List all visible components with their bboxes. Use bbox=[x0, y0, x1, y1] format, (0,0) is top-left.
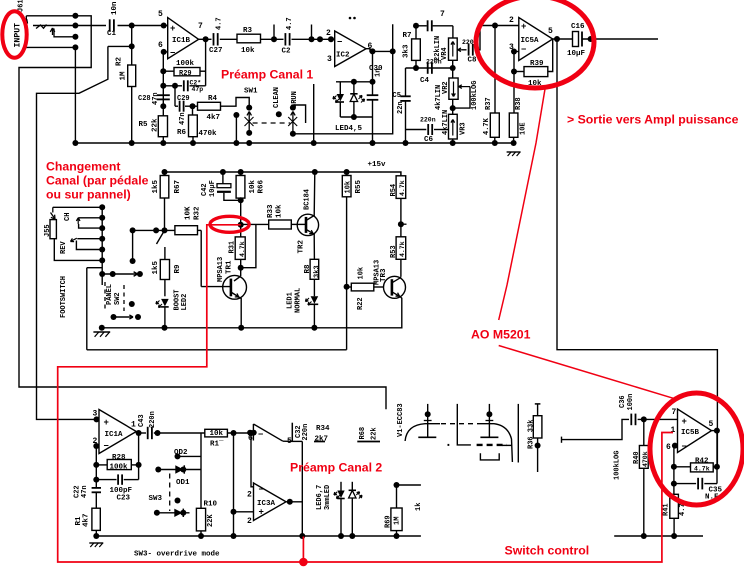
svg-text:R33: R33 bbox=[267, 204, 275, 218]
svg-text:2: 2 bbox=[326, 29, 331, 38]
svg-text:R28: R28 bbox=[112, 454, 126, 462]
svg-text:47n: 47n bbox=[179, 112, 187, 125]
svg-text:J55: J55 bbox=[44, 224, 52, 237]
svg-text:R7: R7 bbox=[403, 32, 412, 40]
svg-text:3: 3 bbox=[93, 410, 98, 419]
svg-text:10k: 10k bbox=[345, 181, 353, 194]
svg-text:PANEL: PANEL bbox=[106, 284, 114, 305]
svg-text:C6: C6 bbox=[424, 136, 434, 144]
svg-text:MPSA13: MPSA13 bbox=[217, 257, 225, 282]
svg-text:TR3: TR3 bbox=[380, 268, 388, 282]
svg-text:220n: 220n bbox=[426, 59, 442, 66]
svg-text:6: 6 bbox=[666, 443, 671, 452]
svg-text:10n: 10n bbox=[111, 1, 119, 15]
svg-text:Préamp Canal 1: Préamp Canal 1 bbox=[221, 68, 313, 82]
svg-text:+: + bbox=[521, 22, 526, 32]
svg-text:AO M5201: AO M5201 bbox=[471, 328, 531, 342]
svg-text:R6: R6 bbox=[177, 129, 187, 137]
svg-text:C29: C29 bbox=[177, 95, 190, 103]
svg-text:R42: R42 bbox=[695, 458, 709, 466]
svg-text:C1: C1 bbox=[107, 30, 117, 38]
svg-text:4.7k: 4.7k bbox=[694, 466, 710, 473]
svg-text:10k: 10k bbox=[210, 430, 224, 438]
svg-text:3: 3 bbox=[509, 43, 514, 52]
svg-text:−: − bbox=[259, 485, 264, 495]
svg-text:Changement: Changement bbox=[46, 160, 120, 174]
svg-text:3k3: 3k3 bbox=[403, 44, 411, 58]
svg-text:5: 5 bbox=[548, 27, 553, 36]
svg-text:4k7LIN: 4k7LIN bbox=[435, 85, 443, 110]
svg-text:3: 3 bbox=[327, 55, 332, 64]
svg-text:C23: C23 bbox=[117, 495, 131, 503]
svg-text:10μF: 10μF bbox=[209, 180, 217, 197]
svg-text:SW2: SW2 bbox=[114, 292, 122, 305]
svg-text:7: 7 bbox=[672, 408, 677, 417]
svg-text:100kLOG: 100kLOG bbox=[614, 451, 622, 480]
svg-text:100k: 100k bbox=[110, 464, 129, 472]
svg-text:1M: 1M bbox=[120, 71, 128, 81]
svg-text:10k: 10k bbox=[276, 204, 284, 218]
svg-text:+: + bbox=[682, 417, 687, 427]
svg-text:REV: REV bbox=[60, 241, 68, 254]
svg-text:R54: R54 bbox=[390, 184, 398, 197]
svg-text:10k: 10k bbox=[241, 47, 255, 55]
svg-text:R8: R8 bbox=[304, 264, 312, 274]
svg-text:22kLIN: 22kLIN bbox=[434, 36, 442, 61]
svg-text:4.7k: 4.7k bbox=[399, 241, 406, 257]
svg-text:6: 6 bbox=[368, 42, 373, 51]
svg-text:C28: C28 bbox=[138, 95, 151, 103]
svg-text:R9: R9 bbox=[174, 264, 182, 274]
svg-text:+: + bbox=[259, 508, 264, 518]
svg-text:NORMAL: NORMAL bbox=[295, 288, 303, 313]
svg-text:4.7k: 4.7k bbox=[399, 180, 406, 196]
svg-text:OD1: OD1 bbox=[176, 479, 190, 487]
svg-text:R4: R4 bbox=[208, 95, 218, 103]
svg-text:R31: R31 bbox=[229, 241, 237, 254]
svg-text:R39: R39 bbox=[530, 60, 544, 68]
svg-text:−: − bbox=[521, 45, 526, 55]
svg-text:R3: R3 bbox=[243, 27, 253, 35]
svg-text:Canal (par pédale: Canal (par pédale bbox=[46, 174, 149, 188]
svg-text:CRUN: CRUN bbox=[291, 91, 299, 108]
svg-text:22k: 22k bbox=[152, 118, 160, 132]
svg-text:LED4,5: LED4,5 bbox=[335, 125, 363, 133]
svg-text:4.7K: 4.7K bbox=[483, 117, 491, 135]
svg-text:ou sur pannel): ou sur pannel) bbox=[46, 188, 131, 202]
svg-text:1: 1 bbox=[671, 426, 676, 435]
svg-text:LED1: LED1 bbox=[287, 292, 295, 309]
svg-text:R29: R29 bbox=[179, 70, 192, 78]
svg-text:10k: 10k bbox=[358, 267, 366, 280]
svg-text:IC3A: IC3A bbox=[257, 500, 276, 508]
svg-text:1n: 1n bbox=[375, 69, 383, 77]
svg-text:100kLOG: 100kLOG bbox=[471, 81, 479, 110]
svg-text:OD2: OD2 bbox=[174, 449, 188, 457]
svg-text:47n: 47n bbox=[81, 485, 89, 498]
svg-text:VR4: VR4 bbox=[441, 47, 449, 60]
svg-text:Switch control: Switch control bbox=[505, 544, 590, 558]
svg-text:470k: 470k bbox=[199, 130, 218, 138]
svg-text:LED6,7: LED6,7 bbox=[316, 485, 324, 510]
svg-text:6: 6 bbox=[248, 434, 253, 443]
svg-text:R5: R5 bbox=[139, 121, 149, 129]
svg-text:−: − bbox=[682, 442, 687, 452]
svg-text:6: 6 bbox=[158, 41, 163, 50]
svg-text:TR1: TR1 bbox=[226, 260, 234, 274]
svg-text:VR3: VR3 bbox=[460, 122, 468, 135]
svg-text:5: 5 bbox=[287, 437, 292, 446]
svg-text:2: 2 bbox=[509, 16, 514, 25]
svg-text:LED2: LED2 bbox=[181, 294, 189, 311]
svg-text:4k7: 4k7 bbox=[207, 114, 221, 122]
svg-text:100n: 100n bbox=[627, 394, 635, 411]
svg-text:1k: 1k bbox=[415, 503, 423, 511]
svg-text:J61: J61 bbox=[18, 0, 26, 12]
svg-text:100k: 100k bbox=[176, 60, 195, 68]
svg-text:220n: 220n bbox=[420, 117, 436, 124]
svg-text:2: 2 bbox=[247, 491, 252, 500]
svg-text:C42: C42 bbox=[201, 183, 209, 196]
svg-text:2: 2 bbox=[93, 437, 98, 446]
svg-text:IC1A: IC1A bbox=[105, 431, 124, 439]
svg-text:220n: 220n bbox=[149, 411, 157, 428]
svg-text:C36: C36 bbox=[619, 395, 627, 408]
svg-text:R40: R40 bbox=[633, 451, 641, 464]
svg-text:47n: 47n bbox=[152, 92, 160, 105]
svg-text:22K: 22K bbox=[207, 514, 215, 527]
svg-text:C5: C5 bbox=[393, 92, 401, 100]
svg-text:4k7LIN: 4k7LIN bbox=[442, 110, 450, 135]
svg-text:7: 7 bbox=[198, 22, 203, 31]
svg-text:R32: R32 bbox=[194, 206, 202, 220]
svg-text:VR2: VR2 bbox=[442, 81, 450, 94]
svg-text:R10: R10 bbox=[204, 501, 218, 509]
svg-text:3k3: 3k3 bbox=[314, 265, 322, 278]
svg-text:CLEAN: CLEAN bbox=[273, 87, 281, 108]
svg-text:R69: R69 bbox=[385, 515, 393, 528]
svg-text:C27: C27 bbox=[209, 47, 223, 55]
svg-text:C16: C16 bbox=[571, 23, 585, 31]
svg-text:R34: R34 bbox=[316, 425, 330, 433]
svg-text:22k: 22k bbox=[371, 427, 379, 440]
svg-text:47p: 47p bbox=[192, 86, 204, 93]
svg-text:CH: CH bbox=[64, 213, 72, 221]
svg-text:FOOTSWITCH: FOOTSWITCH bbox=[60, 276, 68, 318]
svg-text:SW1: SW1 bbox=[244, 88, 258, 96]
svg-text:−: − bbox=[104, 442, 109, 452]
svg-text:−: − bbox=[258, 430, 263, 440]
svg-text:5: 5 bbox=[709, 420, 714, 429]
svg-text:3mmLED: 3mmLED bbox=[324, 485, 332, 510]
svg-text:2k7: 2k7 bbox=[315, 436, 329, 444]
svg-text:C43: C43 bbox=[138, 414, 146, 427]
svg-text:SW3- overdrive mode: SW3- overdrive mode bbox=[134, 551, 220, 559]
svg-text:10μF: 10μF bbox=[567, 50, 586, 58]
svg-text:C8: C8 bbox=[468, 57, 478, 65]
svg-text:SW3: SW3 bbox=[149, 495, 163, 503]
svg-text:IC5A: IC5A bbox=[521, 37, 540, 45]
svg-text:10E: 10E bbox=[520, 122, 528, 135]
svg-text:1k5: 1k5 bbox=[152, 179, 160, 193]
svg-text:C2: C2 bbox=[282, 48, 292, 56]
svg-text:C4: C4 bbox=[420, 77, 430, 85]
svg-text:TR2: TR2 bbox=[298, 239, 306, 253]
svg-text:R66: R66 bbox=[258, 179, 266, 193]
svg-text:1M: 1M bbox=[394, 517, 402, 525]
svg-text:7: 7 bbox=[440, 10, 445, 19]
svg-text:4.7: 4.7 bbox=[216, 17, 224, 30]
svg-text:−: − bbox=[170, 49, 175, 59]
svg-text:+: + bbox=[104, 418, 109, 428]
svg-text:R36 33k: R36 33k bbox=[528, 420, 536, 449]
svg-text:2: 2 bbox=[247, 517, 252, 526]
svg-text:R53: R53 bbox=[390, 245, 398, 258]
svg-text:4.7: 4.7 bbox=[286, 17, 294, 30]
svg-text:10K: 10K bbox=[185, 206, 193, 220]
svg-text:22n: 22n bbox=[397, 101, 405, 114]
svg-text:IC5B: IC5B bbox=[681, 429, 700, 437]
svg-text:1k5: 1k5 bbox=[152, 260, 160, 274]
svg-text:INPUT: INPUT bbox=[14, 23, 23, 48]
svg-text:+: + bbox=[170, 24, 175, 34]
svg-text:1: 1 bbox=[131, 421, 136, 430]
svg-text:Préamp Canal 2: Préamp Canal 2 bbox=[290, 461, 382, 475]
svg-text:IC1B: IC1B bbox=[172, 37, 191, 45]
svg-text:220n: 220n bbox=[302, 424, 310, 441]
svg-text:R68: R68 bbox=[359, 427, 367, 440]
svg-text:5: 5 bbox=[158, 10, 163, 19]
svg-text:4.7k: 4.7k bbox=[239, 241, 246, 257]
svg-text:> Sortie vers Ampl puissance: > Sortie vers Ampl puissance bbox=[567, 113, 739, 127]
svg-text:R41: R41 bbox=[663, 503, 671, 516]
svg-text:R37: R37 bbox=[485, 97, 493, 110]
svg-text:IC2: IC2 bbox=[336, 52, 350, 60]
svg-text:R22: R22 bbox=[357, 297, 365, 310]
svg-text:BC184: BC184 bbox=[304, 189, 312, 210]
svg-text:+15v: +15v bbox=[368, 161, 387, 169]
svg-text:−: − bbox=[337, 38, 342, 48]
svg-text:R55: R55 bbox=[355, 179, 363, 193]
svg-text:R1¯: R1¯ bbox=[210, 440, 224, 449]
svg-text:4k7: 4k7 bbox=[83, 513, 91, 527]
svg-text:R38: R38 bbox=[515, 97, 523, 110]
svg-text:10k: 10k bbox=[249, 179, 257, 193]
svg-text:V1-ECC83: V1-ECC83 bbox=[397, 403, 405, 437]
svg-text:R2: R2 bbox=[116, 56, 124, 66]
svg-text:R67: R67 bbox=[174, 180, 182, 194]
